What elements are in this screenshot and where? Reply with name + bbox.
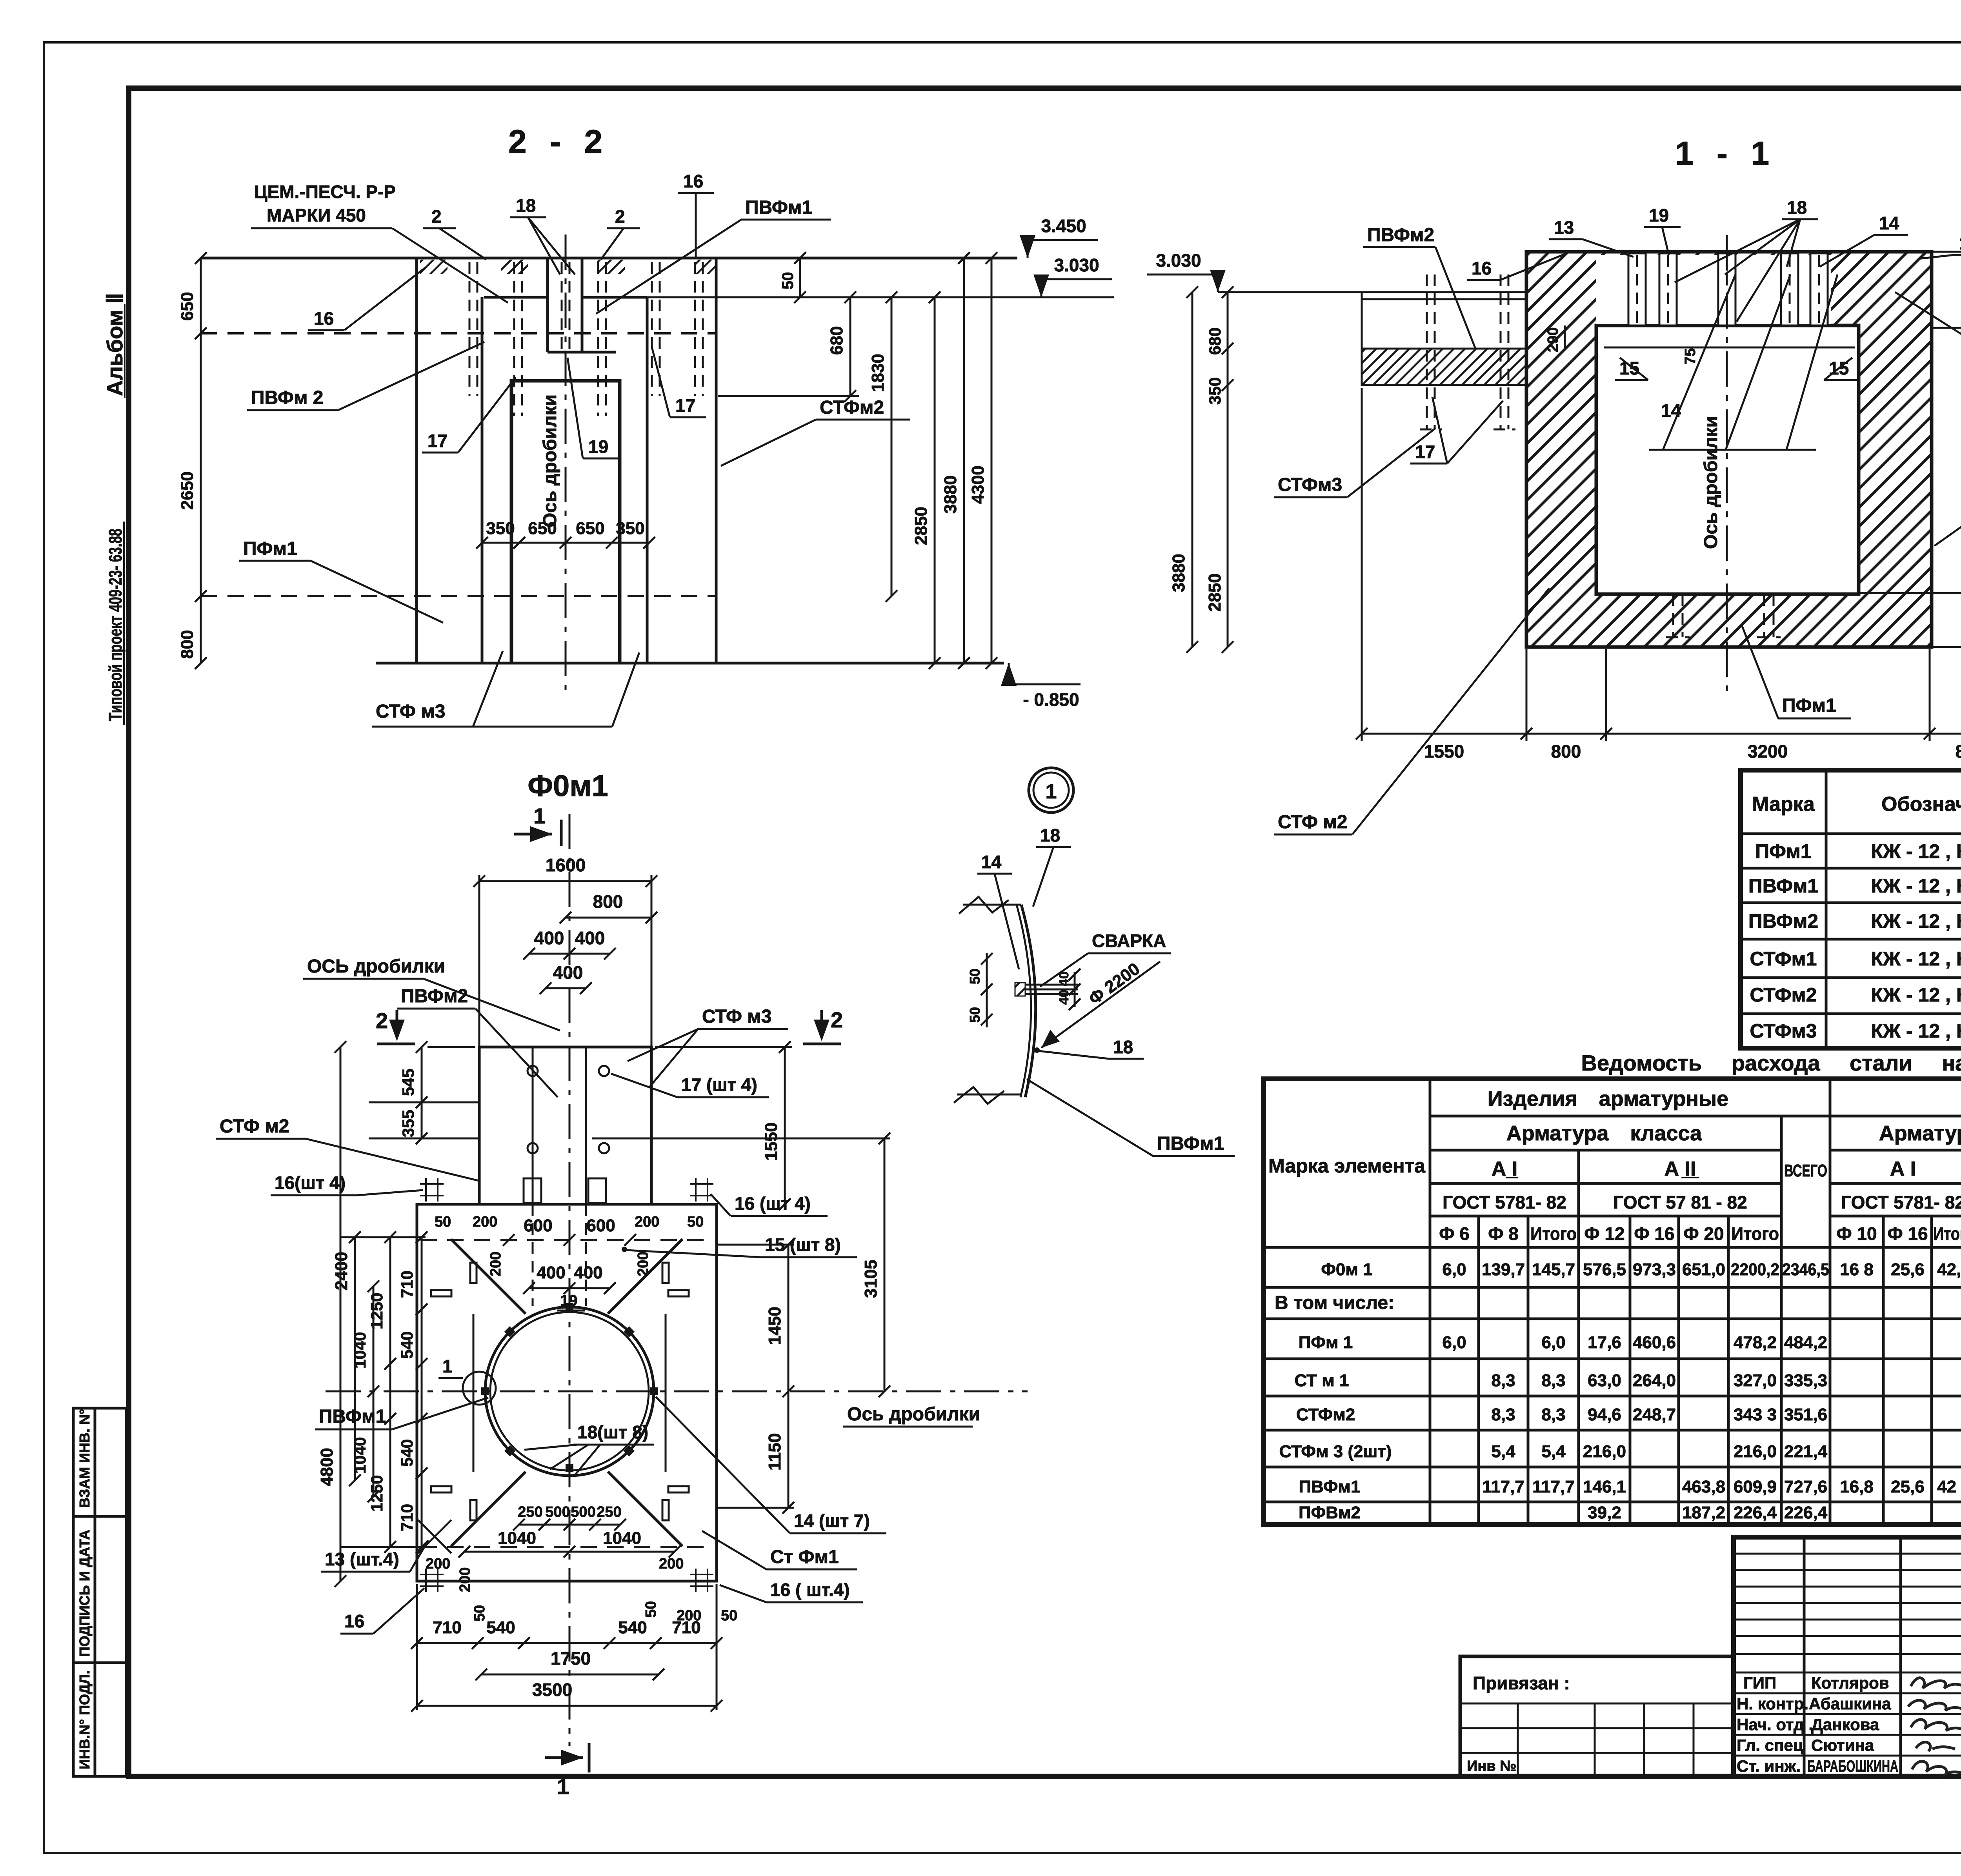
pit side right <box>665 1314 667 1472</box>
svg-text:17: 17 <box>1415 442 1435 462</box>
svg-text:КЖ - 12 , КЖ - 14: КЖ - 12 , КЖ - 14 <box>1871 1020 1961 1042</box>
svg-text:19: 19 <box>588 436 608 457</box>
label PVFm1 plan <box>315 1398 488 1429</box>
detail dim 40 40 <box>1057 969 1081 1010</box>
svg-text:350: 350 <box>616 519 644 538</box>
wall bolts left pair1 <box>1420 274 1442 429</box>
svg-text:СТФ м2: СТФ м2 <box>1278 812 1347 833</box>
svg-text:ГОСТ 5781- 82: ГОСТ 5781- 82 <box>1443 1192 1566 1212</box>
svg-text:3105: 3105 <box>861 1260 880 1298</box>
svg-text:ПФм1: ПФм1 <box>1782 695 1836 716</box>
svg-text:50: 50 <box>779 272 797 290</box>
svg-text:4800: 4800 <box>317 1448 337 1486</box>
label 17 sht4 <box>611 1074 769 1097</box>
right dim 2850 <box>911 291 940 669</box>
svg-text:13: 13 <box>1554 217 1574 238</box>
svg-text:ГОСТ 5781- 82: ГОСТ 5781- 82 <box>1841 1192 1961 1212</box>
horizontal axis plan <box>326 1391 1028 1392</box>
svg-text:1600: 1600 <box>546 855 586 875</box>
anchor bolts dashed <box>469 262 703 416</box>
bolt strip 5 <box>1810 253 1828 325</box>
svg-text:117,7: 117,7 <box>1532 1477 1575 1496</box>
svg-text:2: 2 <box>615 206 625 227</box>
wall bolts left pair2 <box>1493 274 1515 429</box>
svg-text:1830: 1830 <box>868 354 888 392</box>
svg-text:5,4: 5,4 <box>1491 1442 1515 1461</box>
svg-text:400: 400 <box>553 962 583 983</box>
svg-text:216,0: 216,0 <box>1583 1442 1626 1461</box>
svg-text:Нач. отд .: Нач. отд . <box>1737 1715 1813 1734</box>
svg-text:ПФм1: ПФм1 <box>243 538 297 559</box>
steel row PFm1 <box>1299 1333 1961 1352</box>
dim 1750 <box>475 1648 664 1680</box>
dim 1450 right <box>718 1239 794 1397</box>
svg-text:335,3: 335,3 <box>1784 1371 1827 1390</box>
label 14 1-1 top <box>1820 213 1908 267</box>
svg-text:1550: 1550 <box>1424 741 1464 762</box>
label STF m2 plan <box>216 1116 480 1181</box>
svg-text:680: 680 <box>1206 327 1224 355</box>
steel row STFm3 <box>1279 1442 1961 1461</box>
svg-text:600: 600 <box>524 1216 552 1235</box>
svg-text:ПВФм2: ПВФм2 <box>1367 225 1434 245</box>
label STFm2 2-2 <box>721 397 910 466</box>
svg-text:290: 290 <box>1545 327 1561 352</box>
svg-text:710: 710 <box>672 1618 700 1637</box>
svg-text:ПВФм1: ПВФм1 <box>319 1406 386 1427</box>
svg-text:50: 50 <box>721 1607 737 1624</box>
svg-text:50: 50 <box>687 1214 704 1230</box>
detail mark 1 on ring <box>438 1356 496 1405</box>
privyazan box <box>1460 1656 1734 1776</box>
svg-text:- 0.850: - 0.850 <box>1023 689 1079 710</box>
right dims 1-1 <box>1859 246 1961 653</box>
dim 1150 right <box>718 1391 794 1514</box>
svg-text:1150: 1150 <box>765 1433 784 1471</box>
svg-text:14: 14 <box>981 852 1002 872</box>
svg-text:146,1: 146,1 <box>1583 1477 1626 1496</box>
svg-text:17: 17 <box>675 395 695 416</box>
svg-text:16 8: 16 8 <box>1840 1260 1874 1279</box>
wall right edge <box>715 258 718 663</box>
label 16 top <box>678 171 714 257</box>
svg-text:50: 50 <box>435 1214 451 1230</box>
chamfer BL <box>451 1472 526 1546</box>
svg-text:350: 350 <box>486 519 515 538</box>
svg-text:478,2: 478,2 <box>1734 1333 1777 1352</box>
svg-text:Ф 6: Ф 6 <box>1439 1223 1470 1244</box>
top band white with bolt strips <box>1596 255 1831 324</box>
svg-text:463,8: 463,8 <box>1682 1477 1725 1496</box>
dim 800 plan top <box>560 891 657 923</box>
label cement mortar <box>251 182 508 303</box>
detail circle mark 1 <box>1029 768 1073 813</box>
svg-text:16: 16 <box>683 171 703 191</box>
section mark 1 top <box>514 803 561 846</box>
svg-text:3880: 3880 <box>1169 554 1188 592</box>
svg-text:СВАРКА: СВАРКА <box>1092 931 1166 951</box>
svg-text:2 - 2: 2 - 2 <box>508 123 609 160</box>
svg-text:63,0: 63,0 <box>1588 1371 1621 1390</box>
signature roles <box>1737 1674 1813 1775</box>
svg-text:50: 50 <box>967 969 983 984</box>
svg-text:Котляров: Котляров <box>1811 1674 1889 1692</box>
label STFm2 1-1 <box>1274 588 1549 834</box>
svg-text:Привязан :: Привязан : <box>1473 1673 1570 1693</box>
dim 250 500 500 250 <box>513 1504 626 1531</box>
hidden edge dashed lower <box>201 595 716 597</box>
svg-text:351,6: 351,6 <box>1784 1405 1827 1424</box>
signatures handwriting <box>1908 1678 1961 1774</box>
left margin stamp table <box>73 1408 126 1776</box>
svg-text:2650: 2650 <box>178 471 197 510</box>
svg-text:1: 1 <box>533 803 546 828</box>
svg-text:КЖ - 12 , КЖ - 14: КЖ - 12 , КЖ - 14 <box>1871 875 1961 897</box>
svg-text:3500: 3500 <box>532 1680 572 1700</box>
svg-text:СТФ м3: СТФ м3 <box>702 1006 771 1027</box>
svg-text:117,7: 117,7 <box>1482 1477 1524 1496</box>
svg-text:400: 400 <box>574 1263 602 1282</box>
label PVFm2 2-2 <box>247 342 484 410</box>
svg-text:Арматура класса: Арматура класса <box>1506 1122 1702 1145</box>
dim 545 355 left <box>369 1041 479 1144</box>
svg-text:145,7: 145,7 <box>1532 1260 1575 1279</box>
svg-text:ПФВм2: ПФВм2 <box>1299 1503 1361 1522</box>
label PVFm2 1-1 <box>1363 225 1475 349</box>
spec row 6 <box>1750 1020 1961 1042</box>
svg-text:А ̲I: А ̲I <box>1492 1158 1518 1180</box>
svg-text:Ст. инж.: Ст. инж. <box>1737 1757 1801 1775</box>
label 15 left <box>1615 358 1648 380</box>
label 16 left <box>308 267 426 330</box>
label 17 left <box>422 377 516 453</box>
pit side left <box>473 1314 475 1472</box>
ledge left segment <box>484 296 548 299</box>
wall left edge <box>415 258 418 663</box>
svg-text:Ф0м 1: Ф0м 1 <box>1321 1260 1372 1279</box>
svg-text:Инв №: Инв № <box>1467 1758 1517 1774</box>
svg-text:3880: 3880 <box>941 475 960 514</box>
central slot <box>548 258 616 352</box>
svg-text:15: 15 <box>1619 358 1639 378</box>
label 17 right <box>652 347 706 417</box>
svg-text:710: 710 <box>398 1271 416 1298</box>
svg-text:16,8: 16,8 <box>1840 1477 1874 1496</box>
svg-text:17: 17 <box>427 431 448 451</box>
diameters row <box>1439 1223 1961 1244</box>
bolt strip 1 <box>1628 253 1646 325</box>
steel row STm1 <box>1294 1371 1961 1390</box>
right dim 4300 <box>968 252 997 669</box>
svg-text:680: 680 <box>827 326 846 355</box>
left margin underline album <box>124 304 126 398</box>
label 16 sht4 left <box>271 1172 423 1195</box>
svg-text:710: 710 <box>433 1618 461 1637</box>
svg-text:ПОДПИСЬ И ДАТА: ПОДПИСЬ И ДАТА <box>76 1530 93 1657</box>
svg-text:ПФм 1: ПФм 1 <box>1299 1333 1353 1352</box>
svg-text:СТФм3: СТФм3 <box>1750 1020 1817 1042</box>
svg-text:216,0: 216,0 <box>1734 1442 1777 1461</box>
shaft pit box <box>511 381 620 663</box>
label PFm1 2-2 <box>239 538 443 623</box>
mortar hatch patches <box>420 260 448 274</box>
svg-text:Абашкина: Абашкина <box>1809 1694 1891 1713</box>
svg-text:484,2: 484,2 <box>1784 1333 1827 1352</box>
left dim 2400 <box>332 1231 361 1486</box>
steel row PFVm2 <box>1299 1503 1961 1522</box>
corner bolt group BR <box>690 1569 713 1592</box>
signature area verticals <box>1804 1537 1961 1776</box>
label 18 top <box>510 195 575 274</box>
svg-text:18: 18 <box>1040 825 1060 845</box>
svg-text:50: 50 <box>471 1605 488 1622</box>
svg-text:Итого: Итого <box>1530 1223 1577 1244</box>
svg-text:200: 200 <box>659 1556 684 1572</box>
detail label 18 top <box>1033 825 1071 907</box>
svg-text:Ф 8: Ф 8 <box>1488 1223 1519 1244</box>
svg-text:2200,2: 2200,2 <box>1731 1260 1779 1279</box>
svg-text:6,0: 6,0 <box>1442 1260 1466 1279</box>
svg-text:50: 50 <box>967 1007 983 1023</box>
left dim column 710 540 etc <box>398 1231 427 1553</box>
svg-text:В том числе:: В том числе: <box>1275 1292 1394 1313</box>
svg-text:ПВФм1: ПВФм1 <box>1748 875 1818 897</box>
label PFm1 1-1 <box>1741 624 1851 718</box>
elevation -0.850 section 2-2 <box>1001 663 1081 710</box>
title block outer <box>1734 1537 1961 1776</box>
svg-text:250: 250 <box>597 1504 621 1520</box>
label PVFm1 2-2 <box>596 197 831 314</box>
label 14 fan pit <box>1649 274 1837 450</box>
svg-text:250: 250 <box>518 1504 542 1520</box>
left dim 4800 <box>317 1041 346 1587</box>
svg-text:Итого: Итого <box>1933 1223 1961 1244</box>
detail arc outer <box>1021 905 1036 1097</box>
svg-text:2850: 2850 <box>911 507 931 545</box>
svg-text:18: 18 <box>1113 1037 1133 1057</box>
label svarka <box>1040 931 1171 987</box>
svg-text:ИНВ.N° ПОДЛ.: ИНВ.N° ПОДЛ. <box>76 1670 93 1769</box>
foundation bottom line <box>376 662 1004 665</box>
svg-text:ЦЕМ.-ПЕСЧ. Р-Р: ЦЕМ.-ПЕСЧ. Р-Р <box>254 182 396 202</box>
svg-text:2: 2 <box>376 1008 388 1033</box>
label STFm3 1-1 <box>1274 428 1435 497</box>
spec row 3 <box>1748 910 1961 932</box>
svg-text:226,4: 226,4 <box>1734 1503 1777 1522</box>
bottom dim line 1-1 <box>1356 388 1961 762</box>
svg-text:ПФм1: ПФм1 <box>1755 840 1811 862</box>
svg-text:СТФм3: СТФм3 <box>1278 474 1342 495</box>
corner bolt group TR <box>690 1178 713 1202</box>
label 13 1-1 left <box>1549 217 1634 257</box>
circle F2200 outer <box>485 1307 654 1476</box>
svg-text:1040: 1040 <box>498 1529 536 1548</box>
svg-text:600: 600 <box>586 1216 615 1235</box>
elevation 3.030 left <box>1147 250 1226 292</box>
svg-text:Ось дробилки: Ось дробилки <box>1701 416 1721 549</box>
svg-text:Типовой проект 409-23- 63.8: Типовой проект 409-23- 63.88 <box>105 529 126 721</box>
right dim 3880 <box>941 252 970 669</box>
label axis top <box>303 956 560 1031</box>
svg-text:ПВФм1: ПВФм1 <box>1157 1133 1224 1154</box>
svg-text:187,2: 187,2 <box>1682 1503 1725 1522</box>
svg-text:СТФм2: СТФм2 <box>1296 1405 1355 1424</box>
label 19 plan <box>557 1292 585 1311</box>
foundation block hatched <box>1526 252 1932 647</box>
section mark 2 left <box>376 1008 415 1044</box>
svg-text:42,4: 42,4 <box>1937 1260 1961 1279</box>
label 16 bottom <box>340 1588 424 1634</box>
svg-text:94,6: 94,6 <box>1588 1405 1621 1424</box>
crusher axis <box>565 234 567 690</box>
svg-text:727,6: 727,6 <box>1784 1477 1827 1496</box>
spec row 1 <box>1755 840 1961 862</box>
svg-text:Арматура класса: Арматура класса <box>1879 1122 1961 1145</box>
svg-text:3200: 3200 <box>1748 741 1788 762</box>
svg-text:16: 16 <box>1472 258 1492 278</box>
svg-text:8,3: 8,3 <box>1491 1371 1515 1390</box>
svg-text:200: 200 <box>488 1252 504 1276</box>
level 3.030 thin line <box>647 296 1114 298</box>
chamfer TR <box>608 1239 682 1314</box>
svg-text:400: 400 <box>534 928 564 948</box>
svg-text:2: 2 <box>431 206 442 227</box>
svg-text:19: 19 <box>560 1292 578 1309</box>
svg-text:Н. контр.: Н. контр. <box>1737 1694 1808 1713</box>
svg-text:ПВФм 2: ПВФм 2 <box>251 387 323 408</box>
detail label 18 bottom <box>1034 1037 1144 1059</box>
left thin wall top plate <box>1362 292 1526 385</box>
class row <box>1492 1158 1961 1180</box>
svg-text:СТ м 1: СТ м 1 <box>1294 1371 1349 1390</box>
svg-text:16 ( шт.4): 16 ( шт.4) <box>770 1580 850 1600</box>
bolt strip 3 <box>1718 253 1735 325</box>
svg-text:13 (шт.4): 13 (шт.4) <box>325 1549 399 1569</box>
steel row STFm2 <box>1296 1405 1961 1424</box>
upper box notches <box>524 1178 541 1203</box>
svg-text:СТФм2: СТФм2 <box>1750 984 1817 1006</box>
svg-text:650: 650 <box>178 292 197 321</box>
svg-text:1040: 1040 <box>351 1332 369 1369</box>
left dim 1040 1040 <box>351 1280 379 1502</box>
upper box inner wall right <box>585 1047 587 1204</box>
svg-text:Марка элемента: Марка элемента <box>1268 1155 1426 1177</box>
svg-text:15 (шт 8): 15 (шт 8) <box>765 1234 841 1255</box>
label F2200 detail <box>1041 959 1160 1048</box>
svg-text:6,0: 6,0 <box>1442 1333 1466 1352</box>
left dim 1250 1250 <box>341 1231 426 1553</box>
label 19 <box>568 358 619 458</box>
svg-text:200: 200 <box>473 1214 497 1230</box>
label 15 sht8 <box>622 1234 857 1257</box>
section mark 2 right <box>803 1007 843 1044</box>
svg-text:40: 40 <box>1057 990 1071 1005</box>
ring anchor marks <box>481 1303 658 1472</box>
svg-text:609,9: 609,9 <box>1734 1477 1777 1496</box>
label 15 right <box>1824 358 1857 380</box>
label 18 sht8 <box>524 1422 654 1474</box>
circle F2200 inner <box>490 1312 649 1471</box>
svg-text:1040: 1040 <box>351 1437 369 1474</box>
spec table grid <box>1741 770 1961 1048</box>
svg-text:221,4: 221,4 <box>1784 1442 1828 1461</box>
svg-text:248,7: 248,7 <box>1633 1405 1676 1424</box>
left dim line 2-2 <box>178 252 207 669</box>
bolt strip 2 <box>1659 253 1677 325</box>
steel table grid <box>1264 1079 1961 1525</box>
svg-text:18(шт 8): 18(шт 8) <box>577 1422 648 1442</box>
svg-text:355: 355 <box>399 1110 417 1137</box>
svg-text:460,6: 460,6 <box>1633 1333 1676 1352</box>
svg-text:Марка: Марка <box>1752 793 1815 816</box>
dim 3105 right <box>592 1133 890 1397</box>
left margin underline project <box>123 522 125 725</box>
svg-text:540: 540 <box>398 1439 416 1467</box>
svg-text:327,0: 327,0 <box>1734 1371 1777 1390</box>
svg-text:18: 18 <box>1787 197 1807 218</box>
svg-text:2: 2 <box>831 1007 843 1032</box>
svg-text:17 (шт 4): 17 (шт 4) <box>681 1074 757 1095</box>
pit inner dim line <box>1604 347 1855 349</box>
svg-text:18: 18 <box>516 195 536 216</box>
ledge right segment <box>582 296 647 299</box>
label 17 1-1 <box>1410 397 1503 464</box>
svg-text:4300: 4300 <box>968 465 988 504</box>
svg-text:СТФм 3 (2шт): СТФм 3 (2шт) <box>1279 1442 1392 1461</box>
svg-text:А I̲I̲: А I̲I̲ <box>1664 1158 1699 1180</box>
svg-text:ВСЕГО: ВСЕГО <box>1784 1161 1827 1180</box>
svg-text:14 (шт 7): 14 (шт 7) <box>794 1511 870 1531</box>
svg-text:ГОСТ 57 81 - 82: ГОСТ 57 81 - 82 <box>1613 1192 1747 1212</box>
label 16 sht4 right <box>711 1193 828 1216</box>
svg-text:КЖ - 12 , КЖ - 13: КЖ - 12 , КЖ - 13 <box>1871 984 1961 1006</box>
dashed pit edge top <box>420 1239 713 1241</box>
svg-text:Ведомость расхода стали на: Ведомость расхода стали на элемент , кг. <box>1581 1051 1961 1075</box>
svg-text:1: 1 <box>557 1774 569 1799</box>
steel row PVFm1 <box>1299 1477 1961 1496</box>
detail label 14 <box>977 852 1019 969</box>
svg-text:КЖ - 12 , КЖ - 14: КЖ - 12 , КЖ - 14 <box>1871 910 1961 932</box>
svg-text:264,0: 264,0 <box>1633 1371 1676 1390</box>
svg-text:6,0: 6,0 <box>1541 1333 1565 1352</box>
label STF m3 plan <box>628 1006 788 1087</box>
svg-text:КЖ - 12 , КЖ - 13: КЖ - 12 , КЖ - 13 <box>1871 840 1961 862</box>
svg-text:Ф 20: Ф 20 <box>1683 1223 1724 1244</box>
label 2 left <box>423 206 486 260</box>
svg-text:973,3: 973,3 <box>1633 1260 1676 1279</box>
svg-text:39,2: 39,2 <box>1588 1503 1621 1522</box>
svg-text:Ф0м1: Ф0м1 <box>528 769 608 803</box>
svg-text:651,0: 651,0 <box>1682 1260 1725 1279</box>
svg-text:Альбом Ⅱ: Альбом Ⅱ <box>102 293 127 396</box>
svg-text:Ст Фм1: Ст Фм1 <box>770 1547 839 1567</box>
hidden edge dashed upper <box>201 332 716 334</box>
svg-text:Ф 16: Ф 16 <box>1634 1223 1674 1244</box>
svg-text:42 4: 42 4 <box>1937 1477 1961 1496</box>
corner bolt group TL <box>420 1178 444 1202</box>
svg-text:ПВФм1: ПВФм1 <box>1299 1477 1361 1496</box>
dashed bolt lines from upper box <box>532 1204 534 1306</box>
svg-text:2850: 2850 <box>1205 573 1224 612</box>
bolt strip 4 <box>1781 253 1798 325</box>
label STFm1 <box>1934 456 1961 546</box>
svg-text:200: 200 <box>635 1252 651 1276</box>
dim 600 600 <box>503 1216 636 1246</box>
svg-text:540: 540 <box>486 1618 515 1637</box>
svg-text:16: 16 <box>314 308 334 329</box>
svg-text:1: 1 <box>1046 780 1057 803</box>
svg-text:ОСЬ дробилки: ОСЬ дробилки <box>307 956 445 977</box>
